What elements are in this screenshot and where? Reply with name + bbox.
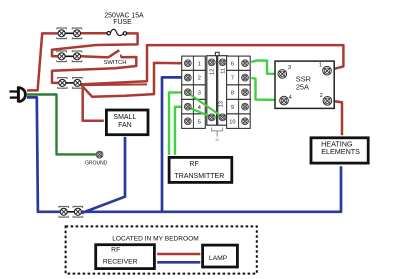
svg-text:7: 7 bbox=[231, 76, 234, 82]
svg-text:2: 2 bbox=[320, 93, 323, 99]
svg-text:FUSE: FUSE bbox=[113, 19, 132, 26]
svg-text:FAN: FAN bbox=[118, 122, 132, 129]
svg-text:12: 12 bbox=[210, 69, 216, 75]
svg-text:6: 6 bbox=[231, 61, 234, 67]
svg-text:13: 13 bbox=[219, 101, 225, 107]
svg-text:10: 10 bbox=[229, 119, 235, 125]
svg-text:5: 5 bbox=[198, 119, 201, 125]
svg-text:3: 3 bbox=[198, 90, 201, 96]
svg-text:GROUND: GROUND bbox=[85, 160, 108, 166]
svg-text:ELEMENTS: ELEMENTS bbox=[321, 147, 360, 156]
svg-text:3: 3 bbox=[288, 65, 291, 71]
svg-text:25A: 25A bbox=[296, 82, 309, 91]
svg-text:1: 1 bbox=[319, 63, 322, 69]
svg-text:LOCATED IN MY BEDROOM: LOCATED IN MY BEDROOM bbox=[112, 235, 199, 242]
svg-text:4: 4 bbox=[198, 105, 201, 111]
svg-text:9: 9 bbox=[231, 105, 234, 111]
svg-text:RF: RF bbox=[189, 161, 198, 168]
svg-text:11: 11 bbox=[221, 68, 227, 74]
svg-text:LAMP: LAMP bbox=[209, 255, 228, 262]
svg-text:TRANSMITTER: TRANSMITTER bbox=[175, 173, 225, 180]
svg-text:SWITCH: SWITCH bbox=[104, 60, 127, 66]
svg-text:1: 1 bbox=[198, 61, 201, 67]
svg-text:8: 8 bbox=[231, 90, 234, 96]
svg-text:2: 2 bbox=[198, 76, 201, 82]
svg-text:RECEIVER: RECEIVER bbox=[103, 258, 138, 265]
svg-text:RF: RF bbox=[111, 247, 120, 254]
svg-text:SMALL: SMALL bbox=[113, 114, 136, 121]
